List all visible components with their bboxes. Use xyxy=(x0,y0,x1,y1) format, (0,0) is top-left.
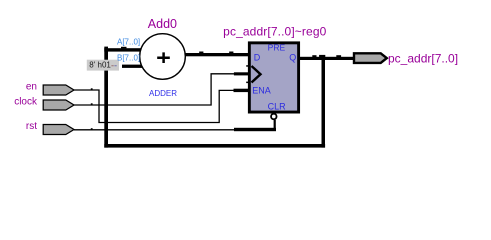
bus left vertical xyxy=(104,48,108,147)
svg-text:Q: Q xyxy=(289,52,296,62)
bus right vertical xyxy=(322,57,326,148)
constant 8'h01 xyxy=(87,60,119,71)
svg-text:Add0: Add0 xyxy=(148,17,177,31)
Q output bus xyxy=(298,57,355,60)
svg-text:PRE: PRE xyxy=(268,42,286,52)
clr bubble xyxy=(271,114,277,120)
wire en xyxy=(74,88,250,122)
D bus tick 2 xyxy=(229,52,233,54)
svg-text:CLR: CLR xyxy=(268,101,287,111)
svg-text:pc_addr[7..0]~reg0: pc_addr[7..0]~reg0 xyxy=(223,25,326,39)
wire clock xyxy=(74,72,250,105)
bus B wire xyxy=(122,65,145,68)
svg-text:B[7..0]: B[7..0] xyxy=(117,54,140,63)
Q bus junction xyxy=(319,55,325,57)
svg-text:pc_addr[7..0]: pc_addr[7..0] xyxy=(388,51,458,65)
output pin pc_addr[7..0] xyxy=(354,53,387,63)
bus A wire xyxy=(104,48,143,51)
adder circle Add0 xyxy=(140,34,186,80)
svg-text:ADDER: ADDER xyxy=(149,89,177,98)
svg-text:ENA: ENA xyxy=(252,86,271,96)
svg-text:A[7..0]: A[7..0] xyxy=(117,37,140,46)
register box pc_addr[7..0]~reg0 xyxy=(249,43,298,112)
bus bottom xyxy=(104,144,325,148)
input pin clock xyxy=(43,100,74,110)
bus corner cap xyxy=(104,47,108,49)
svg-text:rst: rst xyxy=(26,121,37,132)
D bus tick 1 xyxy=(199,52,203,54)
adder plus xyxy=(157,52,170,63)
clock triangle xyxy=(252,66,261,83)
svg-text:clock: clock xyxy=(14,96,38,107)
wire rst xyxy=(74,120,276,131)
svg-text:D: D xyxy=(254,52,261,62)
svg-text:en: en xyxy=(26,81,37,92)
clock triangle base nubs xyxy=(246,65,249,67)
bus A tick xyxy=(121,47,127,49)
Q bus tick 2 xyxy=(336,55,341,57)
adder output bus to D xyxy=(183,53,250,56)
input pin rst xyxy=(43,125,74,135)
svg-text:8' h01: 8' h01 xyxy=(89,61,111,70)
input pin en xyxy=(43,85,74,95)
Q bus tick 1 xyxy=(312,55,316,57)
